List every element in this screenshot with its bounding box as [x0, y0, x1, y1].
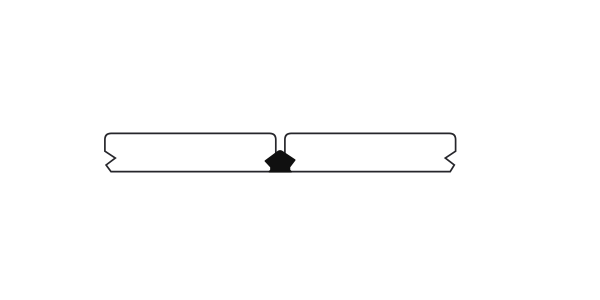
left plate: [105, 133, 276, 171]
right plate: [285, 133, 456, 171]
weld nugget: [265, 151, 295, 172]
